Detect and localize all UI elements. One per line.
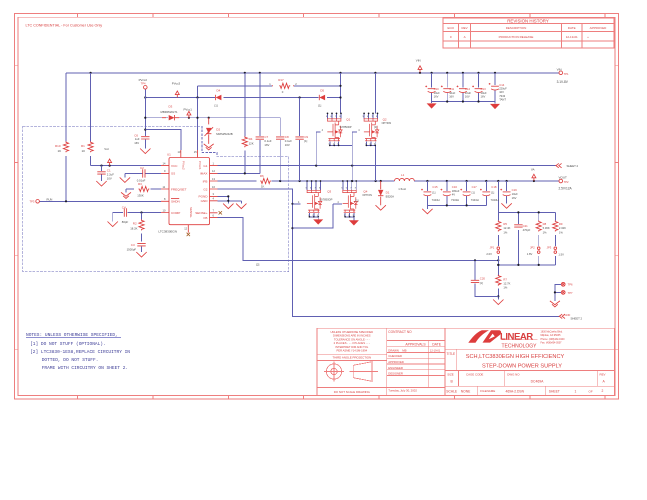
svg-text:THIRD ANGLE PROJECTION: THIRD ANGLE PROJECTION [332, 356, 371, 360]
svg-text:LTC CONFIDENTIAL - For Custome: LTC CONFIDENTIAL - For Customer Use Only [26, 23, 103, 27]
resistor R5 [496, 221, 511, 235]
capacitor C13 [472, 86, 487, 99]
power flag PVcc1 [184, 107, 193, 118]
svg-text:SENSE+: SENSE+ [195, 211, 207, 215]
svg-text:Vcc: Vcc [104, 147, 109, 151]
capacitor C4 [113, 205, 161, 224]
svg-text:PVcc1: PVcc1 [184, 107, 193, 111]
svg-text:B: B [451, 379, 454, 383]
svg-text:CHECKED: CHECKED [388, 354, 402, 358]
svg-text:A: A [464, 35, 466, 39]
svg-text:1: 1 [213, 161, 215, 165]
resistor R9 [553, 221, 566, 235]
wire Q2 source branch [375, 145, 377, 181]
resistor R7 [496, 275, 511, 290]
wire IFB / SW line [218, 180, 559, 182]
transistor Q1 [322, 113, 352, 147]
wire C20 leg [475, 260, 498, 296]
svg-text:TANT: TANT [499, 97, 506, 101]
wire input cap bus [432, 73, 495, 104]
svg-text:ENGINEER: ENGINEER [388, 366, 403, 370]
svg-text:OF: OF [589, 390, 593, 394]
svg-text:2: 2 [602, 389, 604, 393]
ground C4 [108, 222, 118, 227]
capacitor C1 [97, 166, 114, 181]
svg-text:VOUT: VOUT [559, 175, 568, 179]
svg-text:16V: 16V [285, 143, 290, 147]
svg-text:1K: 1K [58, 149, 62, 153]
svg-text:12-19-01: 12-19-01 [566, 35, 578, 39]
svg-text:MBR0520LT1: MBR0520LT1 [161, 110, 178, 114]
svg-text:10uF: 10uF [434, 91, 440, 95]
svg-text:C14: C14 [499, 83, 505, 87]
svg-text:A: A [603, 379, 606, 383]
svg-text:STEP-DOWN POWER SUPPLY: STEP-DOWN POWER SUPPLY [482, 364, 562, 370]
svg-text:C2: C2 [140, 166, 144, 170]
ground Q4 source [349, 217, 359, 226]
svg-text:TOLERANCE ON ANGLE - - -: TOLERANCE ON ANGLE - - - [334, 337, 370, 341]
svg-text:10uF: 10uF [512, 192, 518, 196]
svg-text:RUN: RUN [47, 198, 53, 202]
svg-text:1%: 1% [559, 230, 563, 234]
svg-text:0: 0 [450, 35, 452, 39]
capacitor C20 [471, 276, 486, 284]
svg-text:Milpitas, CA 95035: Milpitas, CA 95035 [541, 334, 562, 337]
svg-text:VCC: VCC [171, 164, 178, 168]
svg-text:U1: U1 [167, 153, 171, 157]
ground output caps [422, 209, 432, 214]
svg-text:1.5V: 1.5V [558, 253, 564, 257]
ground C1 [96, 181, 106, 186]
svg-text:16V: 16V [134, 141, 139, 145]
svg-text:SS: SS [171, 172, 175, 176]
svg-text:UNLESS OTHERWISE SPECIFIED: UNLESS OTHERWISE SPECIFIED [330, 330, 373, 334]
svg-text:C17: C17 [472, 185, 478, 189]
svg-text:APPROVALS: APPROVALS [405, 343, 426, 347]
test point TP1 VIN [557, 67, 569, 84]
svg-text:C15: C15 [432, 185, 438, 189]
capacitor C6 [134, 133, 149, 148]
jumper JP1 [486, 245, 499, 256]
svg-text:DRAWN: DRAWN [388, 348, 398, 352]
border zone tick marks right [615, 65, 619, 349]
svg-text:180uF: 180uF [452, 189, 460, 193]
svg-text:7343H: 7343H [471, 198, 479, 202]
svg-text:18.2K: 18.2K [130, 226, 137, 230]
border zone tick marks bottom [78, 396, 605, 399]
svg-text:DO NOT SCALE DRAWING: DO NOT SCALE DRAWING [334, 390, 371, 394]
capacitor C17 [460, 185, 478, 202]
test point TP3 [30, 200, 40, 204]
svg-text:11: 11 [163, 185, 166, 189]
test point TP7 [561, 291, 573, 295]
svg-text:1K: 1K [261, 184, 265, 188]
svg-text:DWG NO: DWG NO [507, 372, 520, 376]
capacitor C21 [514, 224, 530, 232]
no-connect X SENSE- [187, 233, 190, 236]
svg-text:6: 6 [213, 213, 215, 217]
svg-text:SENSE-: SENSE- [189, 207, 193, 218]
wire R17 boost feed [198, 86, 341, 98]
ground D2 [204, 144, 214, 150]
wire Q2 drain feed [374, 73, 376, 114]
wire PVcc2 pin feed [145, 130, 181, 150]
svg-text:B320A: B320A [386, 194, 395, 198]
svg-text:CAGE CODE: CAGE CODE [466, 372, 483, 376]
no-connect X SENSE+ [219, 211, 222, 214]
svg-text:R17: R17 [278, 78, 284, 82]
capacitor C11 [441, 86, 456, 99]
svg-text:7343H: 7343H [491, 198, 499, 202]
svg-text:12.4K: 12.4K [503, 226, 510, 230]
wire Q2 gate / Q1 source branch [339, 132, 358, 181]
ground D1 [376, 205, 386, 210]
page border inner frame [18, 17, 615, 395]
svg-text:VIN: VIN [416, 58, 421, 62]
jumper JP2 [527, 245, 540, 256]
svg-text:Q2: Q2 [383, 117, 387, 121]
wire output cap ground bus [427, 181, 486, 209]
test point TP4 PVcc2 [139, 78, 148, 89]
svg-text:PRODUCTION RELEASE: PRODUCTION RELEASE [499, 35, 534, 39]
svg-text:IFB: IFB [203, 179, 208, 183]
svg-text:10: 10 [82, 149, 86, 153]
capacitor C19 [500, 188, 518, 200]
svg-text:OPTION: OPTION [362, 194, 372, 197]
svg-text:C13: C13 [481, 87, 487, 91]
svg-text:TP3: TP3 [30, 200, 35, 204]
off-page connector G1 sheet2 [555, 163, 578, 168]
svg-text:7343: 7343 [499, 94, 505, 98]
svg-text:OPTION: OPTION [382, 122, 392, 125]
ground input caps [427, 103, 437, 108]
svg-text:4: 4 [322, 129, 324, 132]
svg-text:D4: D4 [217, 89, 221, 93]
title block approvals [388, 330, 441, 392]
wire VCC line [91, 73, 161, 167]
svg-text:9: 9 [164, 169, 166, 173]
diode D5 [318, 89, 325, 108]
svg-text:1: 1 [575, 390, 577, 394]
diode D3 MBR0520LT1 [161, 104, 180, 120]
svg-text:10uF: 10uF [465, 91, 471, 95]
svg-text:2 PLACES - - - 3 PLACES - -: 2 PLACES - - - 3 PLACES - - - [334, 341, 370, 345]
svg-text:DESCRIPTION: DESCRIPTION [506, 26, 527, 30]
ground C14 [490, 104, 500, 109]
svg-text:PVcc2: PVcc2 [139, 78, 148, 82]
svg-text:1500pF: 1500pF [127, 247, 137, 251]
svg-text:JP1: JP1 [490, 245, 495, 249]
svg-text:D5: D5 [320, 89, 324, 93]
svg-text:GND: GND [565, 313, 571, 317]
ground R7 [493, 300, 503, 305]
svg-text:Fax: (408)434-0507: Fax: (408)434-0507 [541, 341, 563, 344]
svg-text:2.32K: 2.32K [559, 226, 566, 230]
svg-text:1: 1 [269, 82, 271, 86]
svg-text:[1] DO NOT STUFF (OPTIONAL).: [1] DO NOT STUFF (OPTIONAL). [30, 341, 106, 347]
svg-text:1.5uH: 1.5uH [398, 187, 405, 191]
inductor L1 [395, 173, 415, 191]
page border outer frame [15, 14, 619, 399]
svg-text:COMP: COMP [171, 211, 180, 215]
svg-text:4: 4 [213, 197, 215, 201]
svg-text:TITLE: TITLE [447, 352, 456, 356]
capacitor C8 [276, 135, 292, 147]
svg-text:15: 15 [194, 150, 197, 154]
svg-text:APPROVED: APPROVED [388, 360, 404, 364]
svg-text:R5: R5 [503, 222, 507, 226]
resistor R2 [130, 213, 144, 242]
svg-text:R2: R2 [133, 222, 137, 226]
svg-text:14: 14 [163, 161, 166, 165]
svg-text:470pF: 470pF [523, 228, 531, 232]
svg-text:[1]: [1] [318, 103, 321, 107]
wire G1 line to sheet 2 [218, 165, 556, 167]
wire PGND/GND pins [218, 195, 242, 203]
svg-text:VIN: VIN [557, 67, 562, 71]
svg-text:1630 McCarthy Blvd.: 1630 McCarthy Blvd. [541, 331, 564, 334]
svg-text:2: 2 [295, 82, 297, 86]
svg-text:Tuesday, July 30, 2002: Tuesday, July 30, 2002 [388, 388, 417, 392]
svg-text:INTERPRET DIM AND TOL: INTERPRET DIM AND TOL [335, 345, 369, 349]
svg-text:LINEAR: LINEAR [500, 331, 533, 342]
wire R7 leg [497, 260, 499, 299]
svg-text:16V: 16V [481, 95, 486, 99]
svg-text:7343H: 7343H [451, 198, 459, 202]
svg-text:SIZE: SIZE [447, 372, 453, 376]
transistor Q3 [298, 180, 333, 218]
diode D1 B320A [378, 181, 394, 205]
svg-text:8: 8 [164, 197, 166, 201]
wire G2 line to sheet 2 gnd [218, 189, 559, 316]
svg-text:130K: 130K [137, 194, 144, 198]
power flag VA [531, 168, 536, 181]
svg-text:1.8V: 1.8V [527, 252, 533, 256]
svg-text:16V: 16V [264, 143, 269, 147]
transistor Q2 [358, 113, 391, 147]
third angle projection symbol [324, 362, 378, 382]
svg-text:MB: MB [402, 348, 406, 352]
svg-text:TP2: TP2 [564, 180, 569, 184]
svg-text:[1]: [1] [215, 103, 218, 107]
svg-text:DESIGNER: DESIGNER [388, 372, 403, 376]
ground C6 [140, 149, 150, 154]
svg-text:REV: REV [600, 372, 606, 376]
wire TP6 TP7 [554, 284, 561, 301]
revision history table [443, 18, 614, 48]
svg-text:C12: C12 [465, 87, 471, 91]
test point TP2 VOUT [559, 175, 573, 190]
svg-text:16V: 16V [449, 95, 454, 99]
svg-text:10V: 10V [499, 90, 504, 94]
svg-text:C16: C16 [452, 185, 458, 189]
svg-text:[1]: [1] [432, 190, 435, 194]
svg-text:Si7850DP: Si7850DP [340, 125, 352, 129]
svg-text:[1]: [1] [374, 125, 377, 129]
svg-text:C4: C4 [122, 205, 126, 209]
jumper JP3 [547, 245, 565, 256]
svg-text:C21: C21 [523, 224, 529, 228]
svg-text:86pF: 86pF [122, 220, 129, 224]
svg-text:SHEET 2: SHEET 2 [567, 164, 579, 168]
notes text block [26, 332, 130, 371]
diode D2 MMSZ5242B zener [205, 118, 233, 144]
capacitor C3 [127, 243, 146, 252]
svg-text:LTC3830EGN: LTC3830EGN [158, 229, 177, 233]
svg-text:10: 10 [163, 208, 166, 212]
svg-text:DATE: DATE [432, 343, 442, 347]
capacitor C15 [421, 185, 439, 202]
svg-text:VA: VA [531, 168, 535, 172]
svg-text:C19: C19 [512, 188, 518, 192]
diode D4 [215, 89, 222, 108]
svg-text:469A-2.DSN: 469A-2.DSN [506, 390, 525, 394]
power flag VIN [416, 58, 422, 72]
wire Q1 gate branch [316, 132, 320, 166]
svg-text:[1]: [1] [356, 198, 359, 202]
svg-text:G1: G1 [203, 164, 207, 168]
svg-text:16V: 16V [512, 196, 517, 200]
svg-text:Q4: Q4 [363, 189, 367, 193]
svg-text:NONE: NONE [461, 390, 471, 394]
capacitor C16 [441, 185, 460, 202]
svg-text:L1: L1 [401, 173, 405, 177]
svg-text:4V: 4V [452, 192, 455, 196]
svg-text:G2: G2 [203, 187, 207, 191]
capacitor C14 [489, 83, 507, 101]
svg-text:1%: 1% [503, 230, 507, 234]
svg-text:12.7K: 12.7K [503, 282, 510, 286]
svg-text:TECHNOLOGY: TECHNOLOGY [502, 343, 538, 349]
svg-text:FILENAME: FILENAME [480, 389, 495, 393]
svg-text:PVcc2: PVcc2 [182, 161, 186, 170]
svg-text:10uF: 10uF [449, 91, 455, 95]
svg-text:DIMENSIONS ARE IN INCHES: DIMENSIONS ARE IN INCHES [333, 334, 371, 338]
svg-text:SHDN: SHDN [171, 200, 180, 204]
svg-text:SCH,LTC3830EGN HIGH EFFICIENCY: SCH,LTC3830EGN HIGH EFFICIENCY [466, 354, 565, 360]
svg-text:4: 4 [358, 129, 360, 132]
svg-text:JP2: JP2 [530, 245, 535, 249]
svg-text:13: 13 [212, 177, 215, 181]
capacitor C18 [480, 185, 498, 202]
svg-text:220uF: 220uF [499, 87, 507, 91]
ground C2 [120, 177, 130, 182]
capacitor C12 [457, 86, 472, 99]
wire FB net [218, 218, 500, 267]
svg-text:12: 12 [184, 227, 187, 231]
wire VIN bus [66, 72, 559, 142]
title block frame [317, 328, 614, 396]
svg-text:R6: R6 [260, 174, 264, 178]
op-amp U1 LTC3830EGN [158, 150, 217, 233]
resistor R8 [536, 221, 550, 235]
title block tolerance notes [330, 330, 373, 394]
svg-text:SCALE: SCALE [446, 390, 458, 394]
svg-text:16: 16 [212, 185, 215, 189]
svg-text:0: 0 [282, 90, 284, 94]
svg-text:7: 7 [213, 209, 215, 213]
svg-text:SHEET: SHEET [549, 390, 560, 394]
wire PVcc3 boost line [144, 73, 341, 114]
svg-text:[2] LTC3830-1ES8,REPLACE CIRCU: [2] LTC3830-1ES8,REPLACE CIRCUITRY IN [30, 349, 130, 355]
capacitor C2 [125, 166, 161, 183]
svg-text:2.0V: 2.0V [486, 252, 492, 256]
svg-text:TP6: TP6 [568, 283, 573, 287]
svg-text:Si7850DP: Si7850DP [320, 198, 332, 202]
svg-text:[1]: [1] [491, 190, 494, 194]
svg-text:PGND: PGND [199, 195, 209, 199]
svg-text:Q1: Q1 [346, 117, 350, 121]
svg-text:12-19-01: 12-19-01 [430, 348, 441, 352]
svg-text:12K: 12K [249, 141, 254, 145]
svg-text:PER ASME Y14.5M-1994: PER ASME Y14.5M-1994 [337, 349, 368, 353]
svg-text:1%: 1% [503, 286, 507, 290]
svg-text:Q3: Q3 [327, 189, 331, 193]
resistor R4 [242, 136, 254, 147]
svg-text:[1]: [1] [472, 190, 475, 194]
wire SHDN line [40, 156, 162, 203]
svg-text:16V: 16V [434, 95, 439, 99]
svg-text:DATE: DATE [568, 26, 576, 30]
svg-text:R9: R9 [559, 222, 563, 226]
wire PVcc1 line from D3 [144, 89, 280, 150]
svg-text:R4: R4 [249, 137, 253, 141]
wire IMAX line [218, 73, 260, 175]
transistor Q4 [337, 180, 372, 218]
svg-text:ECO: ECO [447, 26, 454, 30]
svg-text:2.5V/12A: 2.5V/12A [559, 187, 573, 191]
ground C19 [501, 203, 511, 208]
svg-text:R3: R3 [138, 182, 142, 186]
svg-text:GND: GND [201, 199, 209, 203]
power flag Vcc [104, 147, 111, 166]
svg-text:D3: D3 [169, 104, 173, 108]
svg-text:REVISION HISTORY: REVISION HISTORY [507, 18, 549, 23]
ground TP6 TP7 [550, 301, 560, 307]
svg-text:[1]: [1] [480, 281, 483, 285]
wire jumper select bus [497, 230, 555, 266]
ground PGND pin [223, 204, 233, 209]
svg-text:16V: 16V [465, 95, 470, 99]
svg-text:[1]: [1] [304, 139, 307, 143]
svg-text:C11: C11 [449, 87, 454, 91]
svg-text:JP3: JP3 [547, 245, 552, 249]
svg-text:TP7: TP7 [568, 291, 573, 295]
svg-text:7343H: 7343H [432, 198, 440, 202]
capacitor C10 [425, 86, 440, 99]
svg-text:REV: REV [462, 26, 468, 30]
svg-text:R1: R1 [81, 144, 85, 148]
svg-text:TP1: TP1 [564, 72, 569, 76]
ground R3 [121, 192, 131, 198]
svg-text:R10: R10 [55, 144, 61, 148]
svg-text:PVcc3: PVcc3 [172, 81, 181, 85]
svg-text:C10: C10 [434, 87, 440, 91]
wire divider bus [498, 181, 555, 260]
svg-text:C20: C20 [480, 276, 486, 280]
svg-text:R7: R7 [503, 277, 507, 281]
test point TP6 [561, 282, 573, 286]
ground C3 [136, 252, 146, 257]
ground GND pin [236, 204, 246, 209]
wire G2 gate loop [293, 204, 342, 228]
svg-text:PVcc1: PVcc1 [198, 161, 202, 170]
capacitor C9 [295, 135, 308, 143]
svg-text:FB: FB [204, 216, 208, 220]
capacitor C7 [256, 135, 272, 147]
off-page connector GND sheet2 [559, 313, 583, 321]
svg-text:DC469A: DC469A [531, 379, 545, 383]
